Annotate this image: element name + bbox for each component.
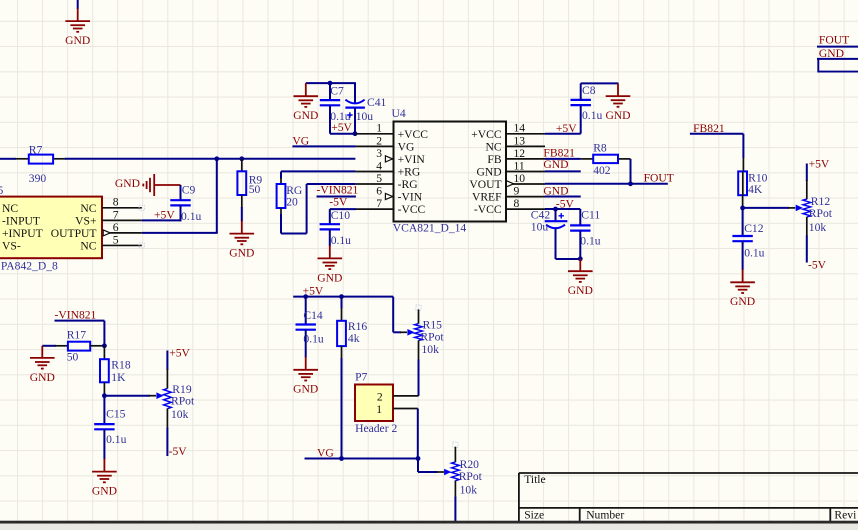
svg-text:0.1u: 0.1u: [331, 234, 351, 247]
net label VG: [317, 446, 334, 459]
pin 2: [393, 395, 419, 397]
svg-text:C10: C10: [331, 209, 351, 222]
wire: [142, 159, 218, 233]
pin 7: [102, 219, 142, 221]
capacitor C14: [296, 325, 316, 330]
wire: [743, 207, 796, 209]
value 50: [67, 351, 79, 364]
wire: [305, 297, 307, 325]
value 0.1u: [330, 110, 350, 123]
wire: [103, 396, 105, 424]
wire: [55, 321, 105, 346]
wire: [104, 395, 156, 397]
wire: [142, 219, 182, 221]
value 4k: [348, 332, 360, 345]
svg-text:11: 11: [514, 159, 525, 172]
svg-text:4K: 4K: [748, 183, 763, 196]
capacitor C15: [94, 424, 114, 429]
svg-text:R7: R7: [29, 143, 43, 156]
wire: [305, 458, 419, 460]
svg-text:5: 5: [376, 172, 382, 185]
wire: [742, 241, 744, 270]
wire: [341, 297, 343, 321]
label R20: [460, 458, 480, 471]
svg-text:GND: GND: [92, 485, 117, 498]
svg-text:NC: NC: [80, 202, 96, 215]
label C8: [582, 84, 596, 97]
svg-text:Title: Title: [524, 473, 545, 486]
svg-text:RPot: RPot: [420, 331, 444, 344]
wire: [581, 83, 619, 100]
power label +5V: [556, 122, 577, 135]
label R18: [111, 359, 131, 372]
wiper arrow: [156, 392, 163, 399]
net label FOUT: [644, 172, 674, 185]
svg-text:GND: GND: [65, 34, 90, 47]
svg-text:7: 7: [376, 197, 382, 210]
svg-text:VG: VG: [398, 140, 415, 153]
value 10k: [460, 483, 478, 496]
svg-text:10u: 10u: [531, 221, 549, 234]
capacitor C11: [570, 225, 590, 230]
svg-text:C14: C14: [303, 309, 323, 322]
svg-text:NC: NC: [2, 202, 18, 215]
svg-text:-VIN: -VIN: [398, 191, 423, 204]
svg-text:12: 12: [514, 147, 526, 160]
svg-text:8: 8: [514, 197, 520, 210]
svg-text:+VIN: +VIN: [398, 153, 426, 166]
power label -5V: [169, 445, 188, 458]
svg-text:-5V: -5V: [808, 258, 827, 271]
svg-text:GND: GND: [293, 109, 318, 122]
svg-text:C8: C8: [582, 84, 596, 97]
svg-text:3: 3: [376, 147, 382, 160]
svg-text:-VIN821: -VIN821: [55, 308, 97, 321]
power label -5V: [808, 258, 827, 271]
pin 6: [103, 230, 142, 236]
wire: [393, 297, 407, 333]
svg-text:13: 13: [514, 134, 526, 147]
svg-text:GND: GND: [476, 166, 501, 179]
svg-text:+5V: +5V: [169, 347, 190, 360]
sheet border: [0, 521, 858, 530]
svg-text:Number: Number: [586, 509, 624, 522]
value 1K: [111, 371, 126, 384]
value 0.1u: [331, 234, 351, 247]
svg-text:6: 6: [376, 184, 382, 197]
label RPot: [171, 394, 195, 407]
value 0.1u: [106, 433, 126, 446]
svg-text:GND: GND: [605, 109, 630, 122]
value 0.1u: [582, 109, 602, 122]
wire: [817, 46, 858, 48]
value 0.1u: [303, 333, 323, 346]
power label +5V: [331, 121, 352, 134]
wire: [545, 183, 668, 185]
svg-text:-5V: -5V: [329, 195, 348, 208]
wire: [817, 58, 858, 60]
svg-text:VS-: VS-: [2, 239, 21, 252]
label Header 2: [355, 422, 397, 435]
junction: [328, 81, 333, 86]
svg-text:2: 2: [376, 134, 382, 147]
wire: [690, 134, 744, 172]
value 10u: [531, 221, 549, 234]
svg-text:-VCC: -VCC: [398, 203, 426, 216]
label R8: [593, 142, 607, 155]
svg-text:C9: C9: [182, 183, 196, 196]
resistor R10: [738, 171, 747, 195]
pin 10: [506, 183, 545, 185]
wire: [77, 0, 79, 9]
wire: [103, 346, 105, 359]
label C14: [303, 309, 323, 322]
value 0.1u: [580, 235, 600, 248]
wire: [65, 158, 356, 160]
potentiometer R15: [415, 305, 423, 396]
junction: [553, 207, 558, 212]
pin 6: [385, 196, 393, 198]
potentiometer R20: [452, 442, 460, 521]
svg-text:0.1u: 0.1u: [744, 247, 764, 260]
ground: [730, 269, 755, 308]
svg-text:1K: 1K: [111, 371, 126, 384]
svg-text:10k: 10k: [460, 483, 478, 496]
junction: [214, 156, 219, 161]
wire: [103, 429, 105, 459]
svg-text:GND: GND: [229, 247, 254, 260]
ground: [293, 83, 318, 122]
capacitor C41 (polarized): [345, 100, 365, 118]
wire: [305, 330, 307, 358]
junction: [740, 206, 745, 211]
svg-text:0.1u: 0.1u: [580, 235, 600, 248]
svg-text:+VCC: +VCC: [398, 128, 429, 141]
ground: [229, 221, 254, 260]
potentiometer R19: [164, 351, 172, 457]
svg-text:U4: U4: [392, 107, 406, 120]
svg-text:-RG: -RG: [398, 178, 419, 191]
wire: [281, 171, 355, 184]
svg-text:+5V: +5V: [331, 121, 352, 134]
svg-text:0.1u: 0.1u: [106, 433, 126, 446]
resistor R18: [100, 359, 109, 382]
label RPot: [809, 207, 833, 220]
label U4: [392, 107, 406, 120]
net label -VIN821: [317, 183, 359, 196]
pin 8: [506, 208, 545, 210]
power label +5V: [303, 285, 324, 298]
resistor R8 pins: [581, 158, 631, 160]
label R9: [249, 173, 263, 186]
svg-text:5: 5: [0, 184, 4, 197]
net label GND: [819, 47, 844, 60]
label C9: [182, 183, 196, 196]
label R16: [348, 320, 368, 333]
label P7: [355, 371, 367, 384]
svg-text:10k: 10k: [422, 343, 440, 356]
svg-text:-VCC: -VCC: [474, 203, 502, 216]
label C41: [367, 96, 387, 109]
svg-text:FOUT: FOUT: [819, 33, 849, 46]
svg-text:GND: GND: [317, 271, 342, 284]
ground: [30, 346, 55, 384]
wire: [354, 108, 356, 134]
ground: [92, 459, 117, 498]
svg-text:VG: VG: [292, 134, 309, 147]
ground: [605, 83, 630, 122]
svg-text:Header 2: Header 2: [355, 422, 397, 435]
pin 7: [355, 208, 393, 210]
svg-text:7: 7: [113, 208, 119, 221]
svg-text:-INPUT: -INPUT: [2, 214, 40, 227]
label RG: [286, 184, 303, 197]
pin 4: [355, 171, 393, 173]
label R19: [172, 383, 192, 396]
label R10: [748, 171, 768, 184]
svg-text:10k: 10k: [809, 221, 827, 234]
svg-text:GND: GND: [115, 177, 140, 190]
svg-text:1: 1: [376, 122, 382, 135]
svg-text:+5V: +5V: [154, 209, 175, 222]
value 10k: [171, 408, 189, 421]
svg-text:R8: R8: [593, 142, 607, 155]
svg-text:RPot: RPot: [171, 394, 195, 407]
wire: [293, 296, 393, 298]
svg-text:50: 50: [249, 183, 261, 196]
potentiometer R12: [803, 164, 811, 263]
pin 11: [506, 171, 545, 173]
ground (rotated): [115, 174, 181, 196]
net label FB821: [543, 146, 575, 159]
pin 9: [506, 196, 545, 198]
label C42: [531, 209, 551, 222]
value 0.1u: [744, 247, 764, 260]
junction: [339, 294, 344, 299]
value 402: [593, 164, 611, 177]
wire: [579, 231, 581, 260]
wire: [630, 159, 632, 184]
wire: [418, 459, 444, 473]
label C7: [330, 85, 344, 98]
svg-text:50: 50: [67, 351, 79, 364]
label PA842_D_8: [1, 259, 58, 272]
svg-text:C15: C15: [106, 407, 126, 420]
pin 8: [102, 205, 144, 210]
svg-text:9: 9: [514, 184, 520, 197]
svg-text:10u: 10u: [356, 110, 374, 123]
power label -5V: [556, 197, 575, 210]
junction: [578, 256, 583, 261]
wire: [180, 185, 182, 200]
svg-text:402: 402: [593, 164, 611, 177]
pin 3 input marker: [385, 156, 392, 162]
svg-text:FOUT: FOUT: [644, 172, 674, 185]
svg-text:RPot: RPot: [809, 207, 833, 220]
junction: [416, 456, 421, 461]
power label +5V: [809, 157, 830, 170]
junction: [102, 393, 107, 398]
svg-text:NC: NC: [485, 140, 501, 153]
junction: [353, 131, 358, 136]
svg-text:R17: R17: [67, 329, 87, 342]
value 10k: [422, 343, 440, 356]
net label FB821: [693, 122, 725, 135]
svg-text:390: 390: [29, 172, 47, 185]
svg-text:VCA821_D_14: VCA821_D_14: [393, 221, 467, 234]
label R7: [29, 143, 43, 156]
wire: [545, 170, 581, 172]
wire: [556, 229, 581, 259]
svg-text:VREF: VREF: [472, 191, 502, 204]
resistor RG: [277, 184, 286, 208]
svg-text:+VCC: +VCC: [471, 128, 502, 141]
value 50: [249, 183, 261, 196]
wire: [545, 209, 580, 220]
net label 5: [0, 184, 4, 197]
pin 13: [506, 145, 545, 147]
resistor R16: [337, 321, 346, 346]
svg-text:C12: C12: [744, 222, 764, 235]
wire: [329, 229, 331, 246]
svg-text:C41: C41: [367, 96, 387, 109]
junction: [628, 181, 633, 186]
svg-text:R18: R18: [111, 359, 131, 372]
ground: [293, 357, 318, 396]
svg-text:+INPUT: +INPUT: [2, 227, 43, 240]
capacitor C8: [571, 100, 591, 105]
value 20: [286, 195, 298, 208]
label R12: [811, 195, 831, 208]
junction: [239, 156, 244, 161]
svg-text:-5V: -5V: [169, 445, 188, 458]
pin 6 input marker: [385, 193, 392, 199]
ground: [65, 8, 90, 47]
connector P7 Header 2: [355, 385, 393, 422]
resistor R8: [593, 155, 618, 163]
wiper arrow: [407, 329, 414, 336]
svg-text:GND: GND: [568, 284, 593, 297]
net label GND: [543, 185, 568, 198]
resistor R17: [68, 342, 90, 351]
wire: [292, 145, 356, 147]
capacitor C10: [320, 224, 340, 229]
svg-text:20: 20: [286, 195, 298, 208]
net label -VIN821: [55, 308, 97, 321]
value 0.1u: [181, 210, 201, 223]
resistor R7: [29, 155, 53, 164]
wire: [42, 345, 68, 347]
svg-text:4k: 4k: [348, 332, 360, 345]
svg-text:Size: Size: [524, 509, 544, 522]
pin 5: [355, 183, 393, 185]
svg-text:GND: GND: [543, 158, 568, 171]
svg-text:VG: VG: [317, 446, 334, 459]
wire: [545, 158, 581, 160]
pin 1: [355, 133, 393, 135]
label R17: [67, 329, 87, 342]
title block: [519, 473, 858, 522]
svg-text:6: 6: [113, 221, 119, 234]
wire: [341, 346, 343, 458]
junction: [303, 294, 308, 299]
net label VG: [292, 134, 309, 147]
label RPot: [459, 470, 483, 483]
svg-text:GND: GND: [30, 371, 55, 384]
op-amp PA842_D_8: [0, 196, 119, 259]
svg-text:PA842_D_8: PA842_D_8: [1, 259, 58, 272]
net label FOUT: [819, 33, 849, 46]
value 390: [29, 172, 47, 185]
svg-text:+5V: +5V: [809, 157, 830, 170]
wire: [281, 184, 355, 234]
resistor R7 pins: [15, 158, 65, 160]
wiper arrow: [444, 469, 451, 476]
pin 14: [506, 133, 545, 135]
svg-text:10: 10: [514, 172, 526, 185]
wire: [417, 409, 419, 459]
svg-text:GND: GND: [293, 383, 318, 396]
wire: [742, 171, 744, 208]
svg-text:Revi: Revi: [834, 509, 856, 522]
pin 1: [393, 408, 418, 410]
label C12: [744, 222, 764, 235]
svg-text:RPot: RPot: [459, 470, 483, 483]
svg-text:14: 14: [514, 122, 526, 135]
svg-text:FB: FB: [487, 153, 501, 166]
value 10k: [809, 221, 827, 234]
label RPot: [420, 331, 444, 344]
wire: [241, 195, 243, 221]
wiper arrow: [796, 205, 803, 212]
svg-text:VOUT: VOUT: [469, 178, 501, 191]
svg-text:5: 5: [113, 233, 119, 246]
svg-text:1: 1: [376, 403, 382, 416]
pin 3: [385, 158, 393, 160]
value 4K: [748, 183, 763, 196]
svg-text:VS+: VS+: [75, 214, 96, 227]
svg-text:P7: P7: [355, 371, 367, 384]
wire: [354, 83, 356, 103]
wire: [579, 209, 581, 225]
svg-text:C11: C11: [581, 209, 600, 222]
power label -5V: [329, 195, 348, 208]
junction: [102, 343, 107, 348]
pin 5: [102, 243, 144, 248]
svg-text:2: 2: [377, 390, 383, 403]
resistor R9: [237, 171, 246, 195]
power label +5V: [169, 347, 190, 360]
svg-text:0.1u: 0.1u: [582, 109, 602, 122]
value 10u: [356, 110, 374, 123]
wire: [180, 205, 182, 221]
wire: [330, 209, 356, 224]
ground: [568, 259, 593, 297]
svg-text:C7: C7: [330, 85, 344, 98]
wire: [329, 83, 331, 100]
label C10: [331, 209, 351, 222]
ground: [317, 245, 342, 284]
label C11: [581, 209, 600, 222]
label C15: [106, 407, 126, 420]
svg-text:8: 8: [113, 196, 119, 209]
pin 2: [356, 145, 394, 147]
svg-text:4: 4: [376, 159, 382, 172]
wire: [103, 382, 105, 395]
capacitor C42 (polarized): [545, 213, 568, 228]
svg-text:GND: GND: [730, 295, 755, 308]
wire: [306, 82, 356, 84]
